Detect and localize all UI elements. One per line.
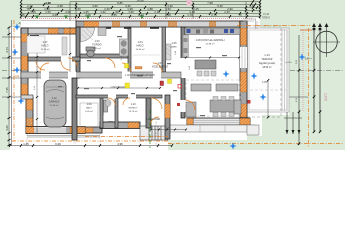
green site background right [260, 0, 345, 30]
sofa [186, 84, 241, 117]
svg-text:1.02 KÖZLEKEDŐ+ÉTKEZŐ: 1.02 KÖZLEKEDŐ+ÉTKEZŐ [125, 74, 155, 77]
yellow section highlight [125, 70, 226, 72]
svg-text:1.10: 1.10 [130, 102, 136, 106]
tall fixture room B [104, 100, 108, 112]
section line A-A horizontal [2, 70, 343, 72]
green strip bottom middle [168, 133, 258, 150]
svg-text:TÉRKŐ: TÉRKŐ [262, 17, 270, 20]
tall cabinet [183, 35, 189, 57]
living room dashed projection [186, 80, 240, 116]
row2 top wall y95-98 [76, 95, 162, 98]
dimension strip green [21, 0, 260, 18]
kitchen counter [185, 28, 240, 35]
svg-text:GARD.: GARD. [171, 46, 178, 49]
svg-text:1.02 ELŐTÉR: 1.02 ELŐTÉR [146, 118, 161, 121]
door arc living [185, 100, 195, 110]
svg-text:GARÁZS: GARÁZS [49, 100, 60, 104]
vertical dim line right of house [267, 80, 269, 118]
svg-text:75: 75 [238, 13, 242, 17]
top wall main (y21-27, x76-247) [76, 21, 247, 27]
svg-text:1.12: 1.12 [51, 96, 57, 100]
svg-text:1.03: 1.03 [94, 39, 100, 43]
door arc row2 [108, 98, 115, 105]
svg-text:1,15: 1,15 [30, 10, 36, 14]
door arc corridor 4 [153, 63, 162, 72]
roof overhang lines top-left [21, 20, 76, 22]
svg-text:13,73 m²: 13,73 m² [129, 110, 138, 113]
green strip left [0, 0, 10, 150]
radiator marks under windows [30, 27, 159, 36]
svg-text:6,30 m²: 6,30 m² [85, 110, 93, 113]
left wall upper (x21-28) [21, 28, 28, 97]
terrace deck dashes [250, 89, 286, 91]
svg-text:4,73: 4,73 [5, 47, 9, 53]
terrace label [259, 53, 276, 69]
svg-text:8,85: 8,85 [117, 1, 123, 5]
top dimension texts [21, 0, 255, 17]
svg-text:1.04: 1.04 [137, 40, 143, 44]
internal dimension line vertical [37, 27, 70, 133]
orange pier segments [84, 21, 247, 26]
bottom right arrow dims [284, 112, 302, 134]
terrace step lines right [282, 29, 287, 111]
bar stools [197, 71, 216, 76]
svg-text:1,50: 1,50 [75, 7, 81, 11]
dashed projection lines [27, 129, 140, 146]
bottom step strip right [165, 125, 255, 132]
door arc corridor 3 [122, 63, 131, 72]
svg-text:1,50: 1,50 [45, 10, 51, 14]
bathtub [62, 37, 67, 55]
orange dashes top right [237, 25, 310, 27]
step between left walls [21, 95, 33, 99]
svg-text:28,98 m²: 28,98 m² [262, 66, 271, 69]
dining table [210, 97, 237, 117]
door arc corridor 2 [105, 58, 115, 68]
dimension ticks top chain [20, 0, 261, 18]
row2 interior walls [72, 78, 77, 140]
entry dim cluster [150, 128, 187, 131]
entrance porch steps [140, 126, 168, 140]
green-area tiny texts top right [262, 13, 270, 20]
svg-text:2,10: 2,10 [154, 10, 160, 14]
svg-text:2,48: 2,48 [165, 13, 171, 17]
corridor dim line [78, 87, 160, 89]
svg-text:2,33: 2,33 [224, 10, 230, 14]
svg-text:1,70: 1,70 [187, 13, 193, 17]
svg-text:24,98: 24,98 [137, 0, 144, 2]
double sink counter [120, 39, 129, 56]
svg-text:fagyálló greslap: fagyálló greslap [259, 62, 276, 65]
svg-text:2,00: 2,00 [65, 10, 71, 14]
orange dash right vertical [308, 28, 310, 148]
toilet 1 [86, 47, 95, 57]
svg-text:7,98: 7,98 [207, 1, 213, 5]
door gap living [181, 100, 186, 112]
kitchen island [195, 60, 216, 69]
porch side wall [165, 95, 170, 139]
svg-text:7,45: 7,45 [5, 87, 9, 93]
window glazing inserts [99, 22, 239, 27]
internal tiny dim texts [34, 41, 191, 115]
svg-text:1,50: 1,50 [128, 10, 134, 14]
section line B-B horizontal [2, 96, 308, 98]
right wall (x240-247) [240, 21, 247, 118]
door arc hall down [68, 58, 77, 67]
left plot boundary line [11, 20, 13, 146]
svg-text:2,75: 2,75 [211, 13, 217, 17]
tree circle top right [313, 24, 340, 57]
main floor slab [21, 21, 247, 140]
left wall lower garage (x26-33) [26, 97, 33, 134]
svg-text:4,05: 4,05 [262, 81, 267, 84]
svg-text:1,45: 1,45 [23, 142, 29, 146]
red dotted eaves line [21, 18, 252, 20]
left vertical dimension line [2, 27, 21, 146]
orange dash-dot property line left [13, 20, 15, 141]
left dimension ticks [8, 27, 11, 147]
toilet 2 [98, 28, 106, 36]
interior wall: living room left [181, 27, 185, 118]
survey benchmark sticks [314, 24, 320, 132]
svg-text:1.09: 1.09 [86, 102, 92, 106]
svg-text:1,62: 1,62 [100, 10, 106, 14]
bottom dimension line [10, 145, 172, 147]
svg-text:HÁZT.: HÁZT. [86, 107, 92, 110]
orange dash-dot bottom lines [85, 136, 168, 138]
svg-text:1.07: 1.07 [42, 40, 48, 44]
corner step bottom-right [247, 125, 259, 135]
svg-text:MŰHELY: MŰHELY [129, 107, 138, 110]
bed room 1.04 [133, 54, 160, 56]
bath bottom wall [80, 54, 128, 58]
shower quarter circle [81, 28, 95, 42]
svg-text:14,40 m²: 14,40 m² [136, 48, 145, 51]
svg-text:1,88: 1,88 [147, 7, 153, 11]
bottom wall middle [83, 122, 140, 133]
terrace outline [247, 28, 289, 112]
pink hatch marker [187, 0, 192, 6]
orange radiator [135, 67, 142, 70]
svg-text:TERASZ: TERASZ [261, 57, 272, 61]
terrace roof overhang dashed [243, 26, 281, 117]
interior wall bath/bed [128, 27, 131, 72]
svg-text:1.01: 1.01 [157, 61, 163, 65]
car in garage [44, 80, 66, 127]
door arc corridor 1 [40, 63, 49, 72]
glass door to terrace [240, 47, 247, 68]
bottom wall right (living) [187, 118, 250, 125]
annotation clutter marks [58, 36, 227, 122]
green vent triangles [35, 16, 144, 20]
vertical dashed line entrance [155, 118, 157, 145]
svg-text:4,98: 4,98 [45, 1, 51, 5]
wardrobe 1.05 [166, 44, 171, 60]
right dim line x299 [298, 35, 300, 145]
svg-text:3,60: 3,60 [92, 4, 98, 8]
red marker fireplace [160, 81, 164, 86]
workbench room 1.10 [80, 103, 98, 128]
svg-text:4,95: 4,95 [117, 142, 123, 146]
top dimension chain lines [21, 2, 260, 17]
wc fixture small [105, 100, 111, 107]
svg-text:-0,45 =: -0,45 = [304, 58, 312, 61]
svg-text:2,55: 2,55 [111, 13, 117, 17]
svg-text:2,876: 2,876 [324, 93, 328, 101]
svg-text:4,40: 4,40 [52, 13, 58, 17]
svg-text:5,20 m²: 5,20 m² [93, 47, 101, 50]
dimension chain vertical connectors [21, 2, 260, 22]
svg-text:41,98 m²: 41,98 m² [206, 43, 215, 46]
svg-text:45: 45 [21, 13, 25, 17]
svg-text:2,98: 2,98 [57, 4, 63, 8]
left rotated dimension texts [5, 21, 24, 131]
corridor wall band y72-78 [21, 72, 181, 79]
interior wall bed/1.05 [162, 27, 166, 72]
svg-text:12,15 m²: 12,15 m² [41, 48, 50, 51]
roof overhang corner lines [243, 19, 257, 29]
svg-text:6,30: 6,30 [55, 142, 61, 146]
svg-text:5,30: 5,30 [217, 4, 223, 8]
svg-text:1.08 KONYHA+NAPPALI: 1.08 KONYHA+NAPPALI [195, 38, 224, 42]
room 1.07 bottom wall [28, 57, 80, 61]
top wall left segment (y28-34, x21-79) [21, 28, 79, 34]
svg-text:3,60: 3,60 [5, 125, 9, 131]
garage bottom wall [26, 127, 100, 138]
blue star markers [11, 23, 305, 149]
svg-text:+0,45=: +0,45= [285, 62, 293, 64]
svg-text:1.05: 1.05 [171, 41, 177, 45]
svg-text:1,40: 1,40 [249, 4, 255, 8]
yellow markers [125, 64, 129, 69]
entry door arc [150, 117, 159, 126]
interior wall left block [76, 27, 80, 78]
kitchen dim line [186, 57, 239, 59]
svg-text:21,34 m²: 21,34 m² [50, 104, 59, 107]
svg-text:1,50: 1,50 [165, 7, 171, 11]
bed room 1.07 [27, 36, 45, 53]
